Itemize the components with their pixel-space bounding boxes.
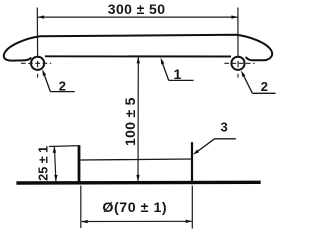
hole 2 right circle — [231, 57, 244, 70]
rail item 1 outline — [4, 35, 272, 61]
hole 2 left circle — [31, 57, 44, 70]
leader 2 left — [44, 73, 51, 92]
arrow top 25 — [53, 146, 56, 153]
rail bottom edge — [45, 55, 231, 57]
svg-text:3: 3 — [220, 120, 227, 135]
centerline horizontal right hole — [224, 62, 254, 64]
svg-text:100 ± 5: 100 ± 5 — [122, 97, 138, 146]
recess top edge — [81, 159, 192, 160]
arrow left Ø70 — [81, 220, 88, 223]
centerline dashes below left hole — [37, 61, 39, 68]
arrow top 100 — [137, 57, 140, 64]
dimension 100±5 line — [137, 57, 139, 181]
svg-text:2: 2 — [59, 78, 66, 93]
arrow bottom 100 — [136, 175, 139, 182]
svg-text:Ø(70 ± 1): Ø(70 ± 1) — [102, 200, 167, 216]
extension line right (hole centerline vertical) — [237, 8, 239, 57]
extension line 25 top — [49, 145, 80, 148]
dimension 300±50 line — [38, 16, 237, 18]
wall left of recess — [78, 145, 81, 184]
wall right of recess — [191, 142, 193, 184]
arrow left 300 — [38, 15, 45, 18]
leader 1 — [162, 61, 169, 81]
floor ground line — [16, 181, 260, 185]
dimension Ø70 line — [82, 220, 192, 222]
centerline horizontal left hole — [21, 62, 51, 64]
svg-text:300 ± 50: 300 ± 50 — [108, 1, 166, 17]
arrow bottom 25 — [54, 175, 57, 182]
arrow right Ø70 — [186, 220, 193, 223]
svg-text:2: 2 — [261, 79, 268, 94]
dimension 25±1 line — [54, 147, 56, 182]
leader 3 — [197, 139, 215, 152]
extension line left (hole centerline vertical) — [36, 8, 38, 57]
extension below floor left — [80, 186, 82, 228]
svg-text:1: 1 — [174, 66, 182, 82]
leader 2 right — [242, 73, 252, 93]
centerline dashes below right hole — [237, 61, 239, 68]
svg-text:25 ± 1: 25 ± 1 — [37, 146, 51, 181]
arrow right 300 — [231, 15, 238, 18]
extension below floor right — [191, 186, 193, 229]
